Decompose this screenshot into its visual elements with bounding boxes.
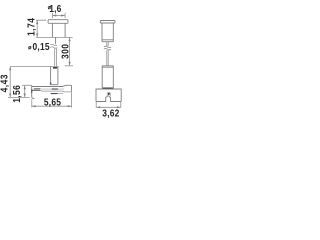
right view: mounting hole dark [108,93,110,95]
svg-text:1,74: 1,74 [25,17,37,36]
wire break symbol (front view) [50,44,57,48]
dimension 1,74 [25,17,46,37]
extension line weld top / 4,43 top reference [10,65,58,67]
extension line 300 bottom reference [65,65,73,67]
clip right arm (front view) [57,66,59,84]
crimp dark bar 1 (front view) [52,89,58,90]
head bottom edge + extension line both sides [36,36,73,38]
right view: wire double line upper [107,42,108,47]
extension line base bottom left [8,96,30,98]
crimp dark bar 2 (front view) [51,93,58,94]
label ⌀1,6 [48,2,61,14]
base top surface (front view) [32,85,72,86]
right view: wire break symbol [104,46,111,50]
head flange (front view) [48,20,68,24]
dimension 1,56 [10,85,26,103]
right view: mounting hole outline [107,92,110,96]
right view: base outline [96,89,121,102]
base bottom edge step and right part (front view) [40,90,71,92]
mid line through crimp bars [41,88,64,90]
wire single segment below head (front view) [55,37,57,44]
right view: base bottom edge with pedestal [96,96,121,102]
base bottom edge left dark part (front view) [32,89,41,91]
clip left arm lower dark section [50,82,52,84]
head body (front view) [52,23,65,37]
base left wall crimp dark section [31,89,33,93]
dimension 3,62 [96,102,121,119]
dimension 300 [59,37,71,65]
wire double line below break (front view) [55,48,57,66]
svg-text:5,65: 5,65 [44,96,61,108]
svg-text:3,62: 3,62 [102,107,119,119]
base left wall with solder foot (front view) [32,85,35,98]
dimension 5,65 [32,92,72,108]
clip jaw line [51,84,58,86]
crimp dark bar left (front view) [34,87,41,90]
svg-text:0,15: 0,15 [33,40,50,52]
svg-text:1,6: 1,6 [49,2,61,14]
dimension line ⌀1,6 [52,13,65,19]
svg-text:4,43: 4,43 [0,74,10,92]
svg-text:300: 300 [59,44,71,59]
weld joint (front view, dark) [53,67,57,69]
svg-text:1,56: 1,56 [10,85,22,103]
clip left arm (front view) [50,66,52,84]
right view: head body [102,23,113,42]
base right tab wall (front view) [71,85,73,91]
label ⌀0,15 [29,40,50,52]
right view: clip arm [102,66,113,89]
line right of bar 2 [58,92,64,94]
right view: weld dark bar [103,88,113,90]
right view: head flange [100,21,115,24]
extension line base top left [22,84,32,86]
right view: wire double line lower [107,50,108,66]
dimension 4,43 [0,66,11,97]
